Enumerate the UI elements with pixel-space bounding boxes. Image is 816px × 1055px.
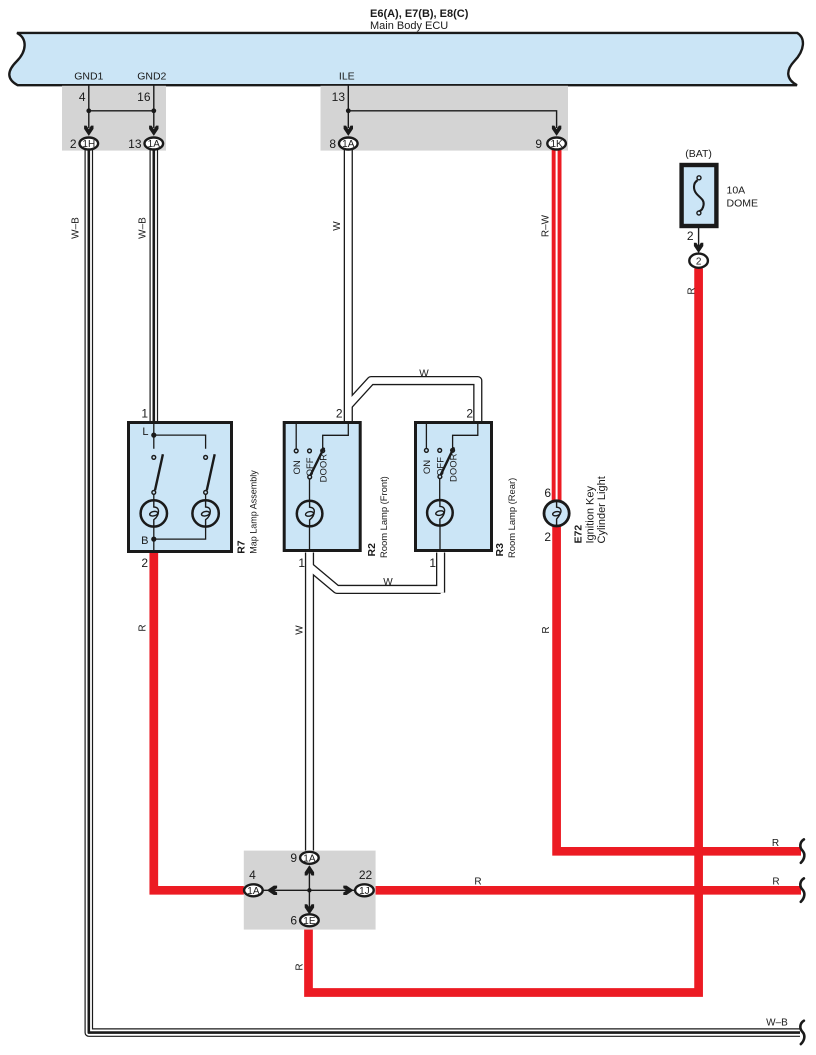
lamp R3 bulb <box>427 500 453 526</box>
R3 internal wires <box>426 424 477 552</box>
svg-text:W–B: W–B <box>138 217 149 239</box>
svg-text:ON: ON <box>292 460 303 474</box>
connector 1H <box>80 138 99 151</box>
wire R from junction 1J to right edge <box>374 886 801 895</box>
junction dot GND2 <box>151 108 156 113</box>
R7 internal wires <box>154 424 206 552</box>
break mark W-B <box>800 1021 804 1044</box>
svg-text:ILE: ILE <box>339 71 355 83</box>
svg-text:Ignition Key: Ignition Key <box>585 486 597 544</box>
svg-text:4: 4 <box>79 90 86 104</box>
arrow right into 1J <box>343 886 353 895</box>
wire W from R2 pin 1 to junction 1A (white core) <box>306 553 313 851</box>
svg-text:1A: 1A <box>303 853 316 864</box>
svg-text:Cylinder Light: Cylinder Light <box>596 476 608 543</box>
wire ILE to 1K tie <box>348 111 556 128</box>
svg-text:W–B: W–B <box>766 1018 788 1029</box>
svg-text:22: 22 <box>359 868 373 882</box>
wire W branch to R3 pin 1 (white core) <box>310 567 441 590</box>
svg-text:R: R <box>687 287 698 294</box>
svg-text:2: 2 <box>696 256 702 267</box>
svg-text:Room Lamp (Front): Room Lamp (Front) <box>378 476 389 558</box>
svg-text:GND2: GND2 <box>137 71 166 83</box>
wire W from 1A(ILE) to R2 pin 2 (outline) <box>344 150 353 422</box>
junction center dot <box>307 888 311 892</box>
svg-text:R: R <box>474 877 481 888</box>
connector block GND1/GND2 <box>62 86 166 151</box>
arrow down into 1E <box>305 904 314 914</box>
component R3 Room Lamp (Rear) <box>416 423 492 551</box>
svg-text:1K: 1K <box>550 139 563 150</box>
wire W-B from 1H to right edge (outline) <box>89 150 800 1033</box>
svg-text:10A: 10A <box>727 185 746 197</box>
connector 1A junction left <box>244 884 263 897</box>
connector 1A junction top <box>300 852 319 865</box>
junction dot GND1 <box>86 108 91 113</box>
svg-text:(BAT): (BAT) <box>685 148 712 160</box>
svg-text:6: 6 <box>544 486 551 500</box>
svg-text:B: B <box>141 535 148 547</box>
arrow into 1H <box>84 126 93 136</box>
svg-text:OFF: OFF <box>305 457 316 476</box>
wire W-B from 1H to right edge (black stripe) <box>89 150 800 1033</box>
connector block ILE/1K <box>321 86 569 151</box>
svg-text:ON: ON <box>422 460 433 474</box>
svg-text:DOME: DOME <box>727 198 759 210</box>
svg-text:DOOR: DOOR <box>318 454 329 483</box>
switch R7 left <box>152 454 163 494</box>
junction dot ILE <box>346 108 351 113</box>
svg-text:Map Lamp Assembly: Map Lamp Assembly <box>249 470 259 554</box>
svg-text:1A: 1A <box>247 886 260 897</box>
svg-text:R3: R3 <box>494 543 506 557</box>
arrow into 1A (GND2) <box>149 126 158 136</box>
svg-text:1J: 1J <box>359 886 370 897</box>
arrow into 1A (ILE) <box>344 126 353 136</box>
svg-text:6: 6 <box>290 914 297 928</box>
svg-text:R: R <box>772 838 779 849</box>
wire W branch to R3 pin 2 (white core) <box>348 381 478 422</box>
svg-text:W: W <box>383 577 393 588</box>
wire W-B from 1A to R7 pin 1 (outline) <box>150 150 159 422</box>
svg-text:4: 4 <box>249 868 256 882</box>
R2 internal wires <box>296 424 348 552</box>
lamp E72 Ignition Key Cylinder Light <box>544 501 569 526</box>
arrow left into 1A(4) <box>267 886 277 895</box>
svg-text:9: 9 <box>290 851 297 865</box>
wire R-W from 1K to E72 pin 6 <box>552 150 562 501</box>
svg-text:2: 2 <box>687 229 694 243</box>
svg-text:W: W <box>295 625 306 635</box>
svg-text:8: 8 <box>329 137 336 151</box>
svg-text:9: 9 <box>535 137 542 151</box>
wire ILE pin 13 drop <box>347 85 349 128</box>
svg-text:GND1: GND1 <box>74 71 103 83</box>
wire fuse to connector 2 <box>698 228 700 246</box>
svg-text:1: 1 <box>429 556 436 570</box>
junction block J/C <box>244 851 376 930</box>
lamp R7 left bulb <box>141 500 167 526</box>
svg-text:R7: R7 <box>236 540 248 554</box>
wire GND2 pin 16 drop <box>153 85 155 128</box>
svg-text:R: R <box>772 877 779 888</box>
wire R from R7 pin 2 to junction 1A <box>154 553 247 891</box>
svg-text:R: R <box>541 626 552 633</box>
svg-text:R–W: R–W <box>541 214 552 237</box>
switch R2 ON/OFF/DOOR <box>294 448 324 479</box>
node L <box>151 433 156 438</box>
svg-text:1E: 1E <box>303 916 316 927</box>
arrow into connector 2 <box>694 243 703 253</box>
wire W stub R3 pin 1 (white core) <box>437 553 444 593</box>
connector 1J junction right <box>355 884 374 897</box>
wire R from DOME fuse to junction 1E <box>309 269 699 993</box>
wire GND1 pin 4 drop <box>88 85 90 128</box>
connector 1A GND2 <box>145 138 164 151</box>
svg-text:2: 2 <box>466 407 473 421</box>
lamp R7 right bulb <box>192 500 218 526</box>
switch R7 right <box>204 454 215 494</box>
svg-text:2: 2 <box>70 137 77 151</box>
wire W branch to R3 pin 2 (outline) <box>348 381 478 422</box>
svg-text:W: W <box>419 369 429 380</box>
arrow into 1K <box>552 126 561 136</box>
component R2 Room Lamp (Front) <box>284 423 360 551</box>
wire GND1-GND2 tie <box>89 110 154 112</box>
svg-text:1A: 1A <box>342 139 355 150</box>
svg-text:1H: 1H <box>82 139 95 150</box>
switch R3 ON/OFF/DOOR <box>425 447 455 478</box>
svg-text:Main Body ECU: Main Body ECU <box>370 20 448 32</box>
svg-text:2: 2 <box>141 556 148 570</box>
svg-text:W: W <box>332 221 343 231</box>
wire R-W white stripe <box>556 150 558 500</box>
svg-text:Room Lamp (Rear): Room Lamp (Rear) <box>506 478 517 558</box>
svg-text:16: 16 <box>137 90 151 104</box>
svg-text:W–B: W–B <box>71 217 82 239</box>
wire W from R2 pin 1 to junction 1A (outline) <box>305 553 314 851</box>
wire W from 1A(ILE) to R2 pin 2 (white core) <box>345 150 352 422</box>
wire W-B from 1A to R7 pin 1 (black stripe) <box>153 150 156 422</box>
lamp R2 bulb <box>297 501 323 527</box>
svg-text:R: R <box>295 963 306 970</box>
svg-text:DOOR: DOOR <box>449 453 460 482</box>
svg-text:13: 13 <box>332 90 346 104</box>
connector 1E junction bottom <box>300 914 319 927</box>
arrow up into 1A(9) <box>305 865 314 875</box>
wire W-B from 1H to right edge (white core) <box>89 150 800 1033</box>
ECU band Main Body ECU <box>9 33 803 85</box>
node B <box>151 537 156 542</box>
connector 1K <box>547 138 566 151</box>
svg-text:1: 1 <box>141 407 148 421</box>
svg-text:R2: R2 <box>366 543 378 557</box>
component R7 Map Lamp Assembly <box>129 423 232 552</box>
svg-text:1: 1 <box>298 556 305 570</box>
wire W branch to R3 pin 1 (outline) <box>310 567 441 590</box>
svg-text:E72: E72 <box>573 525 585 544</box>
svg-text:L: L <box>142 426 148 438</box>
svg-text:OFF: OFF <box>435 457 446 476</box>
junction cross wires <box>262 866 354 914</box>
wire R from E72 pin 2 to right edge <box>557 526 801 851</box>
svg-text:2: 2 <box>336 407 343 421</box>
connector 2 DOME <box>689 254 708 268</box>
svg-text:13: 13 <box>128 137 142 151</box>
wire W stub R3 pin 1 (outline) <box>436 553 445 593</box>
svg-text:E6(A), E7(B), E8(C): E6(A), E7(B), E8(C) <box>370 8 469 20</box>
connector 1A ILE <box>339 138 358 151</box>
fuse 10A DOME <box>682 165 717 226</box>
svg-text:1A: 1A <box>148 139 161 150</box>
svg-text:2: 2 <box>544 530 551 544</box>
break mark R row1 <box>800 839 804 862</box>
svg-text:R: R <box>138 624 149 631</box>
wire W-B from 1A to R7 pin 1 (white core) <box>151 150 157 422</box>
break mark R row2 <box>800 878 804 901</box>
